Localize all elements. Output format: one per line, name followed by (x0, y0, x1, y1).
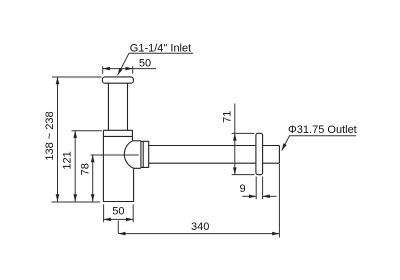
extension lines bottom 50 (104, 204, 134, 222)
label 78 (79, 163, 91, 175)
wall flange (256, 133, 263, 174)
svg-text:78: 78 (79, 163, 91, 175)
label 71 (221, 111, 233, 123)
dimension 138~238 line (57, 77, 59, 202)
arrow right bottom50 (126, 218, 133, 222)
extension lines 9 (256, 177, 262, 200)
arrow right top50 (126, 67, 133, 71)
ball joint dome (124, 141, 133, 169)
extension lines top 50 (103, 66, 133, 74)
arrow down 138~238 (56, 194, 60, 201)
arrow down 78 (91, 194, 95, 201)
svg-text:138 ~ 238: 138 ~ 238 (44, 111, 56, 160)
svg-text:50: 50 (112, 206, 124, 218)
dimension 121 line (74, 131, 76, 202)
dimension 340 connector (117, 221, 119, 234)
arrow left bottom50 (104, 218, 111, 222)
dimension 340 line (118, 233, 279, 235)
trap body (103, 130, 133, 201)
inlet leader arrow (118, 68, 123, 75)
extension line collar top (72, 130, 102, 132)
arrow up 78 (91, 155, 95, 162)
arrow left 340 (118, 232, 125, 236)
arrow down 71 (233, 167, 237, 174)
dimension 9 right segment (263, 195, 277, 197)
dome bottom edge (134, 167, 141, 169)
arrow up 71 (233, 133, 237, 140)
arrow up 138~238 (56, 77, 60, 84)
extension line 340 right (278, 164, 280, 238)
arrow right 340 (272, 232, 279, 236)
dimension bottom 50 line (104, 218, 134, 220)
outlet pipe end (263, 146, 280, 164)
outlet leader line (282, 136, 357, 151)
arrow left 9 (263, 195, 270, 199)
inlet leader line (118, 53, 194, 75)
outlet pipe (149, 146, 256, 164)
svg-text:G1-1/4" Inlet: G1-1/4" Inlet (130, 42, 191, 54)
arrow down 121 (73, 194, 77, 201)
extension line body bottom (52, 201, 101, 203)
svg-text:50: 50 (139, 58, 151, 70)
label 121 (62, 151, 74, 169)
dimension 71 line (234, 104, 236, 175)
svg-text:340: 340 (191, 221, 209, 233)
outlet leader arrow (282, 143, 287, 150)
arrow up 121 (73, 131, 77, 138)
svg-text:121: 121 (62, 151, 74, 169)
dimension 9 left segment (242, 195, 256, 197)
outlet centerline (91, 154, 139, 156)
dimension top 50 line (103, 68, 156, 70)
inlet pipe (108, 83, 127, 130)
nut inner line (142, 141, 144, 167)
dome top edge (132, 140, 141, 142)
collar ring (103, 130, 132, 141)
extension lines 71 (232, 133, 255, 174)
extension line top flange left (52, 76, 102, 78)
dimension 78 line (92, 155, 94, 202)
label 138~238 (44, 111, 56, 160)
outlet nut (141, 141, 149, 167)
inlet flange (102, 77, 133, 83)
arrow right 9 (249, 195, 256, 199)
svg-text:71: 71 (221, 111, 233, 123)
arrow left top50 (103, 67, 110, 71)
svg-text:9: 9 (240, 183, 246, 195)
svg-text:Φ31.75 Outlet: Φ31.75 Outlet (288, 124, 357, 136)
